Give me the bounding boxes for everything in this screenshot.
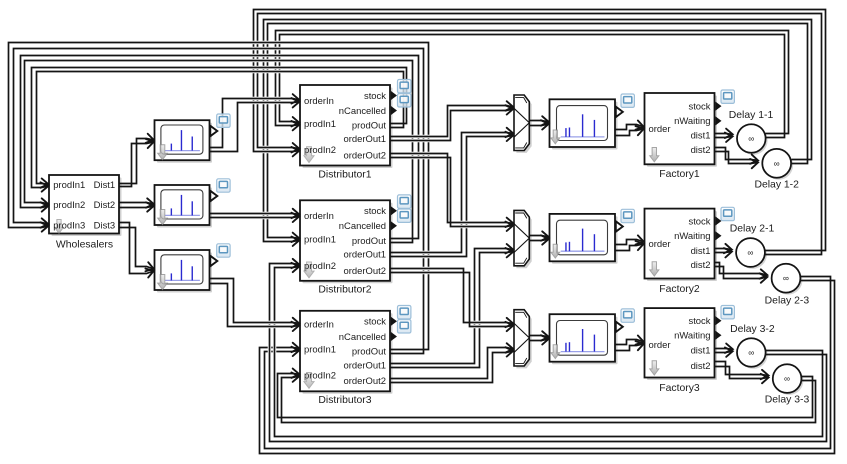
wire Scope2 to Distributor2.orderIn (213, 212, 297, 216)
badge Factory3 (721, 306, 734, 319)
svg-text:Distributor3: Distributor3 (318, 395, 371, 406)
svg-text:∞: ∞ (748, 134, 754, 144)
svg-text:Distributor1: Distributor1 (318, 169, 371, 180)
svg-text:prodIn1: prodIn1 (304, 345, 336, 356)
wire Delay 1-2 to Distributor2.prodIn1 (264, 20, 812, 242)
server Delay 3-3 (773, 364, 804, 395)
wire Distributor1.prodOut to Wholesalers.prodIn1 (32, 68, 407, 188)
Scope1 output port arrow (210, 126, 217, 136)
svg-text:prodIn1: prodIn1 (53, 180, 85, 191)
svg-text:prodIn1: prodIn1 (304, 235, 336, 246)
svg-text:dist1: dist1 (691, 346, 711, 357)
svg-text:orderIn: orderIn (304, 320, 334, 331)
Distributor3 nCancelled port arrow (391, 332, 397, 341)
wire Delay 3-3 to Distributor3.prodIn2 (278, 374, 813, 418)
Distributor3 stock port arrow (391, 317, 397, 326)
svg-text:Wholesalers: Wholesalers (56, 240, 113, 251)
svg-text:Factory2: Factory2 (659, 284, 700, 295)
badge Scope1 (217, 114, 230, 127)
Scope4 watermark arrow (551, 130, 560, 144)
wire Distributor2.orderOut2 to Combiner3.in1 (393, 269, 511, 324)
subsystem Factory2 (645, 209, 718, 281)
scope Scope4 (550, 99, 618, 149)
Scope4 output port arrow (616, 107, 623, 117)
svg-text:nCancelled: nCancelled (339, 221, 386, 232)
wire Factory1.dist2 to Delay 1-2 (718, 148, 756, 160)
Scope3 watermark arrow (158, 275, 168, 290)
svg-text:order: order (649, 239, 671, 250)
svg-text:stock: stock (688, 216, 710, 227)
badge Distributor1 stock (398, 80, 411, 93)
badge Distributor3 nCancelled (398, 320, 411, 333)
Distributor2 watermark arrow (304, 262, 314, 278)
svg-text:Factory3: Factory3 (659, 383, 700, 394)
subsystem Distributor3 (300, 311, 393, 394)
wire Factory3.dist2 to Delay 3-3 (718, 362, 766, 376)
server Delay 1-2 (762, 149, 793, 180)
wire Delay 3-2 to Distributor2.prodIn2 (275, 267, 823, 437)
svg-text:prodIn2: prodIn2 (304, 371, 336, 382)
wire Factory3.dist1 to Delay 3-2 (718, 347, 731, 351)
svg-text:orderIn: orderIn (304, 211, 334, 222)
svg-text:dist1: dist1 (691, 246, 711, 257)
svg-text:stock: stock (688, 101, 710, 112)
wire Wholesalers.Dist1 to Scope1 (122, 139, 152, 184)
svg-text:nWaiting: nWaiting (674, 231, 710, 242)
badge Scope6 (621, 309, 634, 322)
Wholesalers watermark arrow (55, 220, 64, 234)
svg-text:Delay 1-2: Delay 1-2 (754, 180, 799, 191)
server Delay 2-3 (772, 264, 803, 295)
Factory1 stock port arrow (715, 102, 721, 111)
svg-text:nWaiting: nWaiting (674, 331, 710, 342)
Scope5 watermark arrow (551, 244, 560, 258)
scope Scope5 (550, 214, 618, 264)
wire Scope5 to Factory2.order (618, 240, 642, 245)
badge Scope3 (217, 244, 230, 257)
svg-text:Delay 2-1: Delay 2-1 (730, 224, 775, 235)
Scope3 output port arrow (210, 256, 217, 266)
wire Distributor3.orderOut2 to Combiner3.in2 (393, 348, 511, 379)
scope Scope3 (155, 250, 213, 293)
badge Distributor2 nCancelled (398, 209, 411, 222)
badge Factory2 (721, 207, 734, 220)
wire Factory1.dist1 to Delay 1-1 (718, 132, 731, 136)
Distributor2 stock port arrow (391, 206, 397, 215)
server Delay 3-2 (737, 338, 768, 369)
svg-text:dist2: dist2 (691, 361, 711, 372)
badge Scope5 (621, 209, 634, 222)
svg-text:prodOut: prodOut (352, 347, 386, 358)
wire Wholesalers.Dist3 to Scope3 (122, 223, 152, 274)
scope Scope1 (155, 120, 213, 163)
wire Scope3 to Distributor3.orderIn (213, 279, 297, 324)
badge Distributor3 stock (398, 306, 411, 319)
Distributor3 watermark arrow (304, 373, 314, 389)
scope Scope2 (155, 185, 213, 228)
server Delay 2-1 (736, 238, 767, 269)
svg-text:∞: ∞ (783, 273, 789, 283)
Scope2 watermark arrow (158, 210, 168, 225)
svg-text:Delay 2-3: Delay 2-3 (765, 295, 810, 306)
svg-text:orderOut2: orderOut2 (344, 151, 387, 162)
path combiner Combiner3 (514, 310, 532, 369)
path combiner Combiner2 (514, 210, 532, 268)
Scope1 watermark arrow (158, 145, 168, 160)
svg-text:Delay 3-2: Delay 3-2 (730, 324, 775, 335)
svg-text:∞: ∞ (784, 374, 790, 384)
Factory2 stock port arrow (715, 216, 721, 225)
svg-text:Dist2: Dist2 (94, 200, 116, 211)
subsystem Distributor1 (300, 85, 393, 168)
Factory3 watermark arrow (650, 361, 659, 375)
svg-text:prodOut: prodOut (352, 121, 386, 132)
Factory2 nWaiting port arrow (715, 231, 721, 240)
Distributor1 stock port arrow (391, 91, 397, 100)
svg-text:orderOut1: orderOut1 (344, 134, 387, 145)
Factory3 stock port arrow (715, 316, 721, 325)
svg-text:dist1: dist1 (691, 131, 711, 142)
wire Scope4 to Factory1.order (618, 125, 642, 130)
Scope5 output port arrow (616, 221, 623, 231)
svg-text:prodIn3: prodIn3 (53, 220, 85, 231)
svg-text:dist2: dist2 (691, 145, 711, 156)
svg-text:Factory1: Factory1 (659, 169, 700, 180)
svg-text:Delay 1-1: Delay 1-1 (729, 110, 774, 121)
svg-text:order: order (649, 340, 671, 351)
wire Scope6 to Factory3.order (618, 340, 642, 345)
Factory1 watermark arrow (650, 148, 659, 162)
server Delay 1-1 (737, 124, 768, 155)
badge Distributor1 nCancelled (398, 94, 411, 107)
svg-text:∞: ∞ (748, 348, 754, 358)
svg-text:Delay 3-3: Delay 3-3 (765, 395, 810, 406)
Distributor2 nCancelled port arrow (391, 221, 397, 230)
svg-text:orderIn: orderIn (304, 96, 334, 107)
svg-text:dist2: dist2 (691, 260, 711, 271)
wire Distributor1.orderOut2 to Combiner2.in1 (393, 154, 511, 223)
Distributor1 watermark arrow (304, 147, 314, 163)
wire Distributor2.orderOut1 to Combiner1.in2 (393, 133, 511, 253)
svg-text:prodOut: prodOut (352, 236, 386, 247)
Scope6 output port arrow (616, 322, 623, 332)
badge Scope4 (621, 94, 634, 107)
svg-text:∞: ∞ (774, 158, 780, 168)
wire Distributor3.prodOut to Wholesalers.prodIn3 (9, 43, 429, 350)
wire Distributor1.orderOut1 to Combiner1.in1 (393, 106, 511, 137)
badge Distributor2 stock (398, 195, 411, 208)
wire Wholesalers.Dist2 to Scope2 (122, 203, 152, 204)
svg-text:nCancelled: nCancelled (339, 106, 386, 117)
svg-text:Dist3: Dist3 (94, 220, 116, 231)
wire Scope1 to Distributor1.orderIn (213, 99, 297, 148)
svg-text:nWaiting: nWaiting (674, 116, 710, 127)
wire Factory2.dist1 to Delay 2-1 (718, 247, 730, 251)
badge Scope2 (217, 179, 230, 192)
svg-text:orderOut1: orderOut1 (344, 361, 387, 372)
path combiner Combiner1 (514, 95, 532, 153)
svg-text:orderOut2: orderOut2 (344, 266, 387, 277)
subsystem Factory1 (645, 93, 718, 167)
svg-text:prodIn2: prodIn2 (304, 145, 336, 156)
svg-text:orderOut2: orderOut2 (344, 376, 387, 387)
svg-text:prodIn2: prodIn2 (53, 200, 85, 211)
Distributor1 nCancelled port arrow (391, 106, 397, 115)
wire Distributor3.orderOut1 to Combiner2.in2 (393, 249, 511, 364)
subsystem Wholesalers (49, 175, 122, 236)
Scope6 watermark arrow (551, 345, 560, 359)
wire Delay 2-1 to Distributor1.prodIn2 (254, 10, 826, 251)
Scope2 output port arrow (210, 191, 217, 201)
subsystem Factory3 (645, 308, 718, 380)
wire Delay 1-1 to Distributor1.prodIn1 (276, 31, 789, 134)
wire Combiner1 to Scope4 (532, 121, 547, 122)
wire Combiner3 to Scope6 (532, 336, 547, 337)
svg-text:order: order (649, 124, 671, 135)
svg-text:∞: ∞ (747, 248, 753, 258)
svg-text:Dist1: Dist1 (94, 180, 116, 191)
wire Delay 2-3 to Distributor3.prodIn1 (265, 277, 831, 449)
Factory1 nWaiting port arrow (715, 116, 721, 125)
subsystem Distributor2 (300, 200, 393, 283)
svg-text:stock: stock (688, 316, 710, 327)
Factory3 nWaiting port arrow (715, 331, 721, 340)
scope Scope6 (550, 314, 618, 364)
Factory2 watermark arrow (650, 262, 659, 276)
svg-text:stock: stock (364, 91, 386, 102)
svg-text:orderOut1: orderOut1 (344, 250, 387, 261)
wire Combiner2 to Scope5 (532, 236, 547, 237)
svg-text:stock: stock (364, 317, 386, 328)
wire Factory2.dist2 to Delay 2-3 (718, 263, 765, 275)
wire Distributor2.prodOut to Wholesalers.prodIn2 (21, 56, 419, 239)
svg-text:nCancelled: nCancelled (339, 332, 386, 343)
svg-text:prodIn2: prodIn2 (304, 261, 336, 272)
badge Factory1 (721, 90, 734, 103)
svg-text:stock: stock (364, 206, 386, 217)
svg-text:Distributor2: Distributor2 (318, 285, 371, 296)
svg-text:prodIn1: prodIn1 (304, 119, 336, 130)
